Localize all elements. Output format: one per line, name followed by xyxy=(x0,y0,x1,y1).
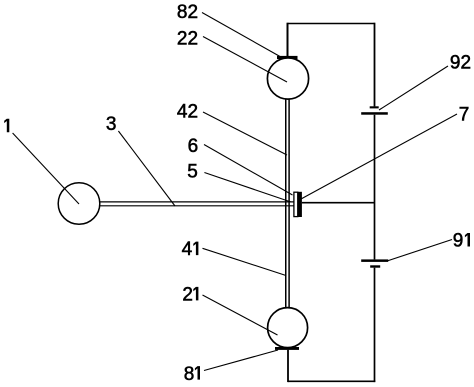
bulb 21 (bottom circle) xyxy=(268,308,308,348)
leader line for label 22 xyxy=(203,37,287,83)
leader line for label 82 xyxy=(202,13,280,57)
leader line for label 41 xyxy=(203,248,287,275)
wire 7 to frame right edge xyxy=(302,202,375,204)
svg-text:92: 92 xyxy=(450,53,471,74)
svg-text:22: 22 xyxy=(177,28,198,49)
battery 92 short plate xyxy=(370,106,379,108)
leader line for label 42 xyxy=(203,112,287,155)
handle 1 (left circle) xyxy=(58,183,100,225)
wire from frame top to electrode cap 82 xyxy=(287,23,289,57)
svg-text:2: 2 xyxy=(182,284,193,305)
battery 91 long plate xyxy=(361,259,388,262)
frame top edge (wire) xyxy=(288,23,375,25)
svg-text:42: 42 xyxy=(177,101,198,122)
frame bottom edge (wire) xyxy=(288,380,375,382)
svg-text:4: 4 xyxy=(182,239,193,260)
leader line for label 6 xyxy=(204,145,293,196)
svg-text:7: 7 xyxy=(459,105,470,126)
electrode cap 82 (bar on top of bulb 22) xyxy=(277,56,298,59)
bulb 22 (top circle) xyxy=(267,58,308,99)
svg-text:9: 9 xyxy=(453,231,464,252)
leader line for label 7 xyxy=(301,114,457,199)
valve plate 6 (black bar) xyxy=(297,192,302,217)
wire from cap 81 to frame bottom xyxy=(287,350,289,382)
svg-text:8: 8 xyxy=(184,364,195,385)
svg-text:6: 6 xyxy=(188,136,199,157)
leader line for label 5 xyxy=(204,173,291,203)
battery 91 short plate xyxy=(370,265,380,267)
battery 92 long plate xyxy=(361,112,388,115)
rod 3 (double horizontal line from handle to valve) xyxy=(99,201,294,203)
valve body 5 (outlined box) xyxy=(294,192,298,216)
leader line for label 91 xyxy=(387,240,452,262)
frame right edge lower segment (wire) xyxy=(374,268,376,382)
leader line for label 3 xyxy=(118,131,175,206)
svg-text:3: 3 xyxy=(106,114,117,135)
label 1 xyxy=(4,119,9,133)
leader line for label 92 xyxy=(379,66,448,110)
electrode cap 81 (bar below bulb 21) xyxy=(275,347,299,350)
frame right edge middle segment (wire) xyxy=(374,115,376,260)
svg-text:5: 5 xyxy=(187,161,198,182)
leader line for label 1 xyxy=(13,133,79,204)
tube 42 (double vertical line, upper) xyxy=(285,99,287,309)
frame right edge upper segment (wire) xyxy=(374,23,376,107)
leader line for label 81 xyxy=(204,350,278,371)
svg-text:82: 82 xyxy=(177,2,198,23)
leader line for label 21 xyxy=(203,295,278,335)
